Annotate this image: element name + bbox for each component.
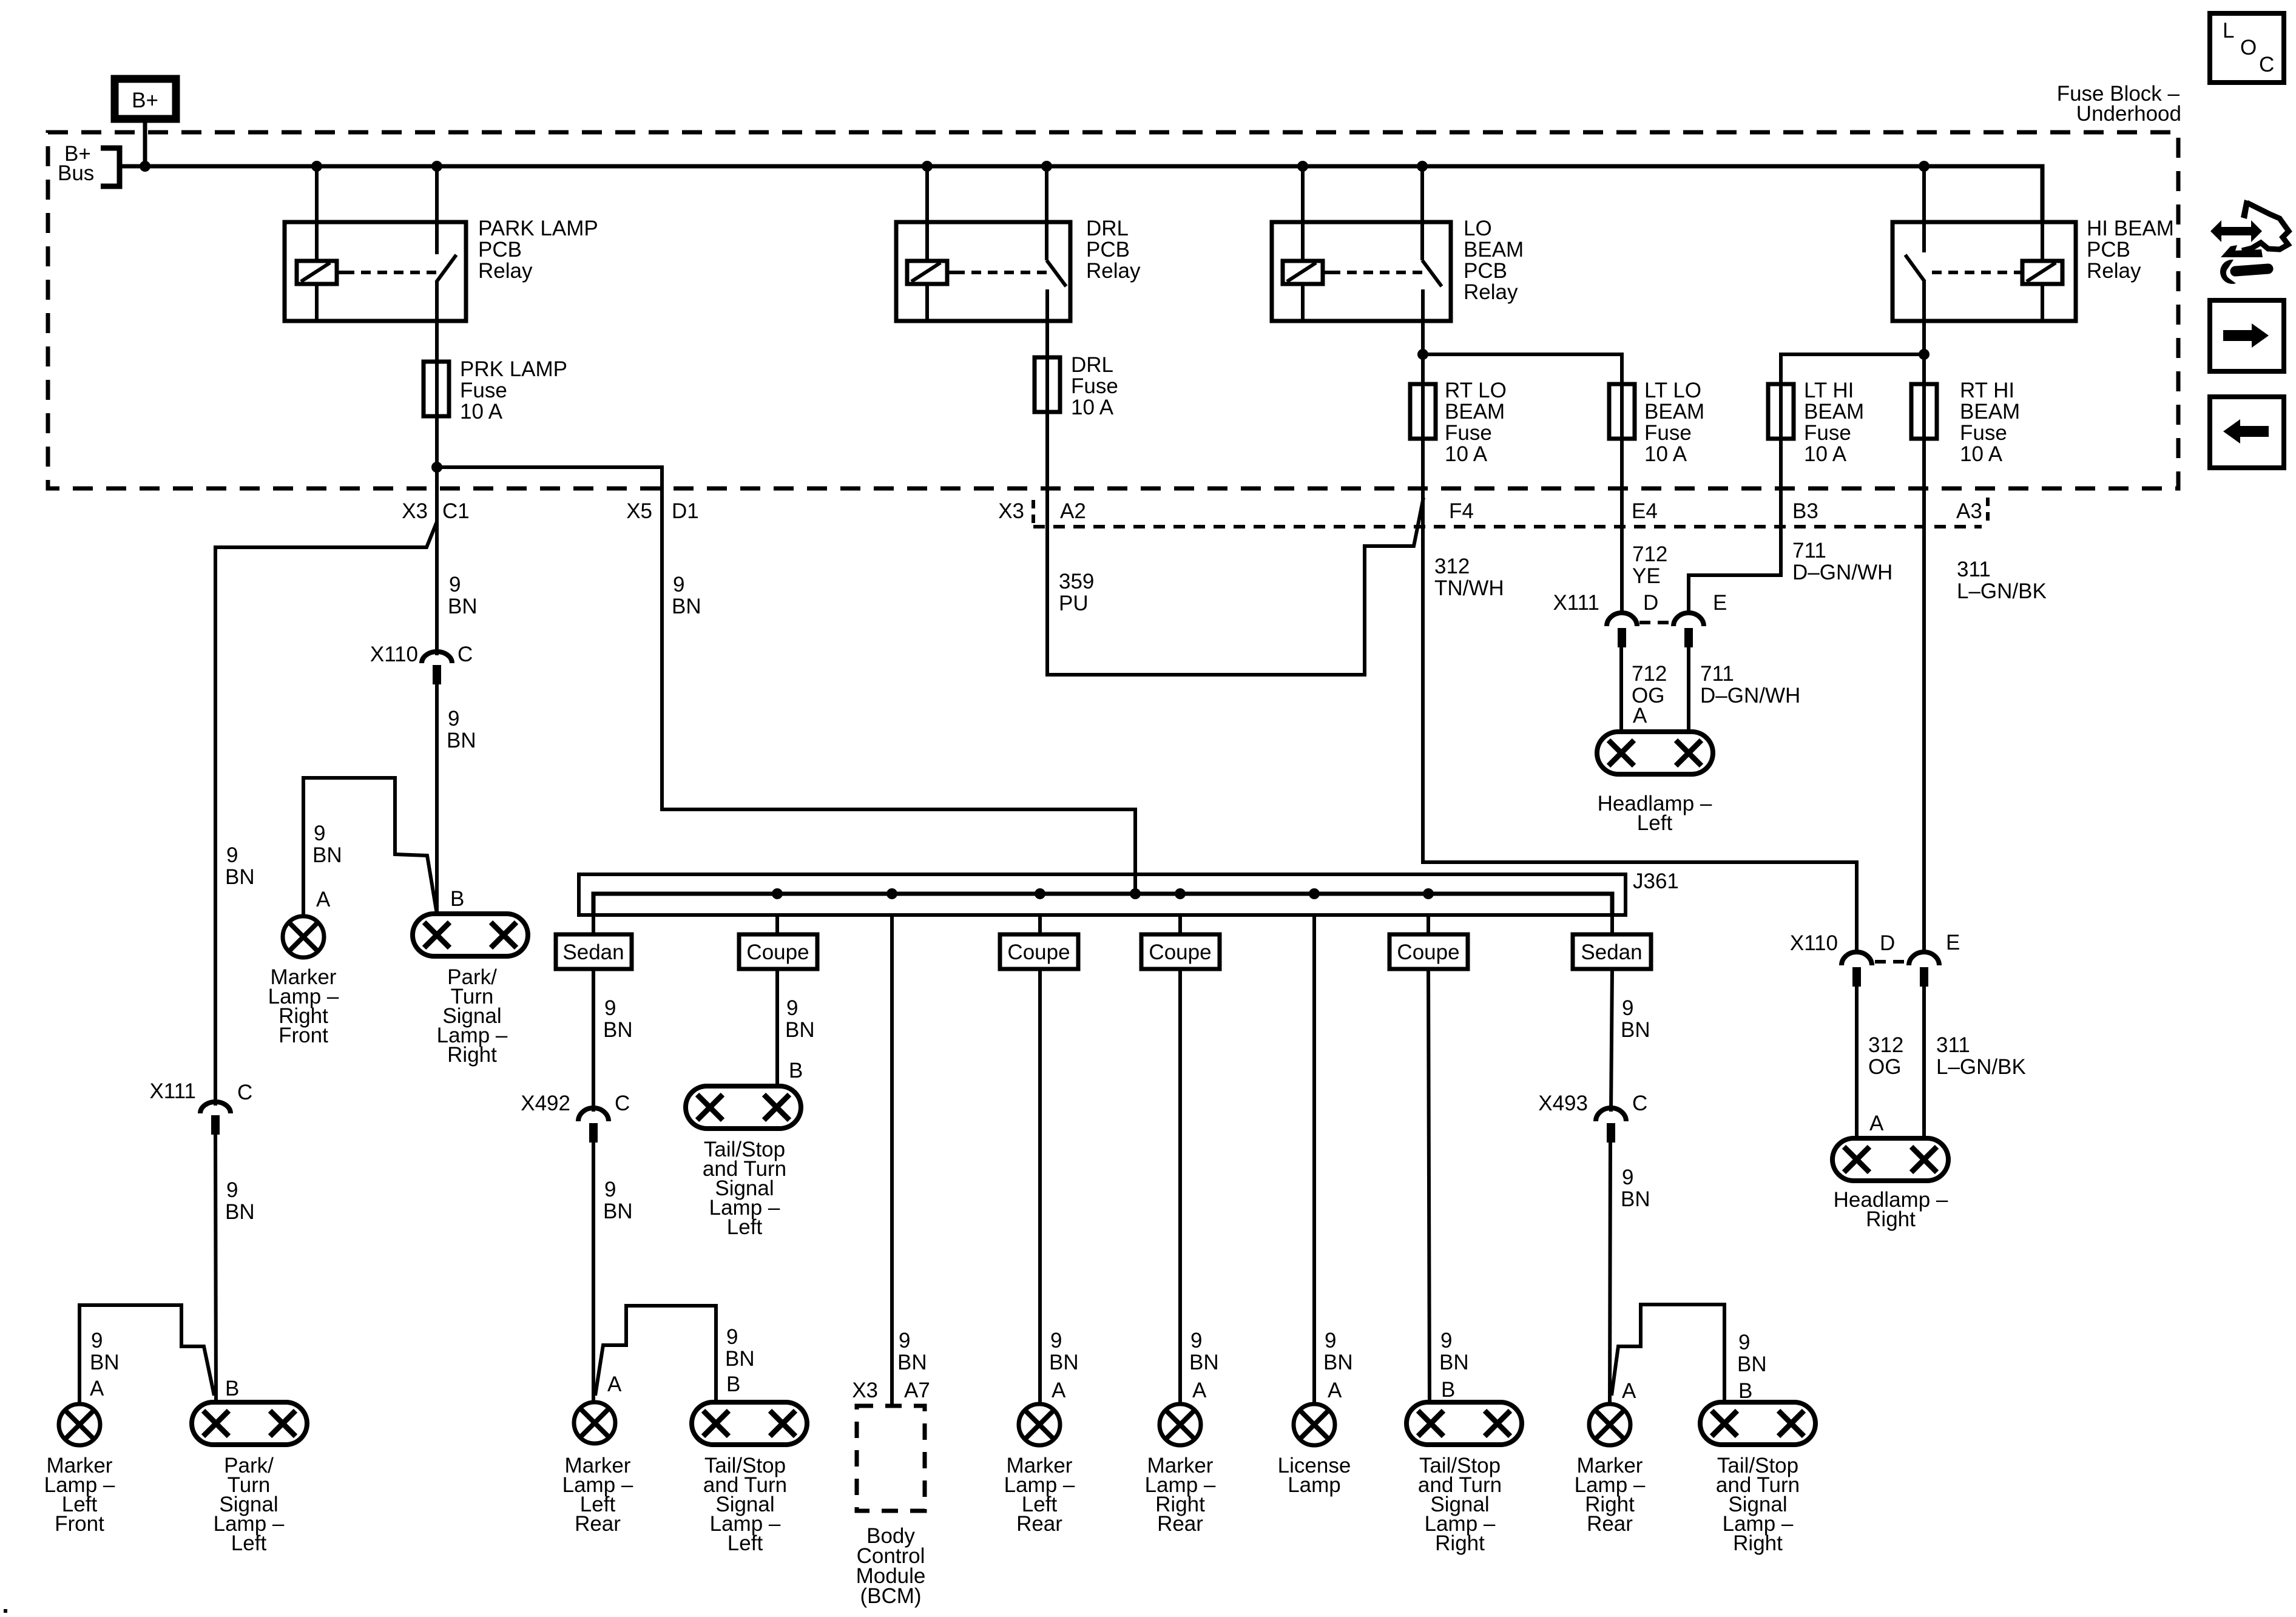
svg-text:BN: BN bbox=[225, 1200, 255, 1224]
svg-text:A: A bbox=[316, 888, 331, 911]
svg-text:X5: X5 bbox=[626, 499, 652, 523]
svg-text:9: 9 bbox=[1325, 1329, 1336, 1352]
svg-text:10 A: 10 A bbox=[1445, 442, 1488, 466]
label 712 OG bbox=[1632, 662, 1667, 707]
svg-text:B: B bbox=[789, 1059, 803, 1082]
svg-text:312: 312 bbox=[1434, 555, 1470, 578]
svg-text:Relay: Relay bbox=[478, 259, 533, 283]
svg-text:Right: Right bbox=[1435, 1531, 1485, 1555]
svg-text:A3: A3 bbox=[1956, 499, 1982, 523]
label Park/Turn Signal Lamp Left bbox=[214, 1454, 285, 1555]
svg-text:A: A bbox=[1869, 1112, 1884, 1135]
relay K2 DRL PCB Relay bbox=[896, 166, 1070, 321]
connector X492 C inline bbox=[521, 1092, 630, 1143]
label 312 OG bbox=[1868, 1033, 1903, 1079]
label 9 BN (below X110) bbox=[447, 707, 476, 752]
svg-text:Rear: Rear bbox=[575, 1512, 621, 1536]
svg-text:Sedan: Sedan bbox=[562, 940, 624, 964]
lamp Marker Lamp Right Rear (sedan) bbox=[1589, 1404, 1630, 1445]
stray period bottom left bbox=[4, 1609, 7, 1613]
label Marker Lamp Right Front bbox=[268, 965, 339, 1047]
label Body Control Module (BCM) bbox=[856, 1524, 926, 1608]
wire J361 tap to Coupe box 3 bbox=[1178, 915, 1182, 934]
wire 711 D-GN/WH to headlamp left bbox=[1687, 647, 1690, 732]
svg-text:712: 712 bbox=[1632, 542, 1667, 566]
svg-text:TN/WH: TN/WH bbox=[1434, 576, 1504, 600]
fuse F5 LT HI BEAM Fuse 10A bbox=[1768, 384, 1794, 439]
svg-text:B: B bbox=[225, 1377, 239, 1400]
svg-text:Fuse: Fuse bbox=[1445, 421, 1492, 445]
svg-text:A: A bbox=[1633, 704, 1647, 727]
svg-text:B+: B+ bbox=[132, 89, 158, 112]
svg-text:9: 9 bbox=[1440, 1329, 1452, 1352]
svg-text:BN: BN bbox=[1439, 1351, 1469, 1374]
label Headlamp Right bbox=[1834, 1188, 1948, 1231]
relay K4 HI BEAM PCB Relay bbox=[1893, 166, 2076, 321]
fuse F4 LT LO BEAM Fuse 10A bbox=[1609, 384, 1635, 439]
svg-text:C: C bbox=[2259, 53, 2274, 76]
label 9 BN (X111 feed wire) bbox=[225, 843, 255, 889]
svg-text:X3: X3 bbox=[402, 499, 428, 523]
lamp Marker Lamp Left Rear (sedan) bbox=[574, 1402, 615, 1443]
label DRL Fuse 10 A bbox=[1071, 353, 1118, 419]
label Park/Turn Signal Lamp Right bbox=[437, 965, 508, 1067]
label 9 BN (license wire) bbox=[1323, 1329, 1353, 1374]
svg-text:PRK LAMP: PRK LAMP bbox=[460, 357, 567, 381]
label 711 D-GN/WH bbox=[1792, 539, 1893, 584]
svg-text:9: 9 bbox=[314, 822, 325, 845]
svg-text:B: B bbox=[1738, 1379, 1752, 1403]
svg-text:9: 9 bbox=[1190, 1329, 1202, 1352]
label 9 BN (BCM wire) bbox=[897, 1329, 927, 1374]
node J361 tap 5 bbox=[1175, 888, 1186, 899]
wire B+ bus bbox=[120, 166, 2042, 222]
svg-text:PCB: PCB bbox=[1464, 259, 1507, 283]
wire 9 BN below X493 bbox=[1610, 1143, 1610, 1404]
connector X110 D (headlamp right) bbox=[1790, 931, 1895, 987]
node bus tap hi switch bbox=[1919, 161, 1930, 172]
svg-text:LO: LO bbox=[1464, 217, 1492, 240]
svg-text:359: 359 bbox=[1059, 570, 1094, 593]
wire drl switch to fuse bbox=[1045, 321, 1049, 357]
svg-text:OG: OG bbox=[1868, 1055, 1901, 1079]
svg-text:Rear: Rear bbox=[1157, 1512, 1203, 1536]
wire 712 YE from LT LO fuse bbox=[1620, 439, 1624, 615]
svg-text:Right: Right bbox=[447, 1043, 497, 1067]
svg-text:RT LO: RT LO bbox=[1445, 379, 1507, 402]
wire 712 OG to headlamp left bbox=[1619, 647, 1623, 732]
connector X110 E (headlamp right) bbox=[1875, 931, 1960, 987]
svg-text:Relay: Relay bbox=[1086, 259, 1141, 283]
svg-text:9: 9 bbox=[1738, 1331, 1750, 1354]
variant box Coupe 1 bbox=[739, 934, 817, 969]
svg-text:BN: BN bbox=[1621, 1187, 1650, 1211]
svg-text:Rear: Rear bbox=[1587, 1512, 1633, 1536]
wire coupe1 to tail/stop left coupe bbox=[775, 969, 779, 1086]
label 9 BN (tail/stop left branch) bbox=[725, 1325, 755, 1371]
wire sedan right to X493 bbox=[1611, 969, 1612, 1112]
svg-text:D–GN/WH: D–GN/WH bbox=[1700, 684, 1800, 707]
svg-text:HI BEAM: HI BEAM bbox=[2087, 217, 2174, 240]
wire park switch to fuse bbox=[435, 321, 439, 362]
label Marker Lamp Right Rear (coupe) bbox=[1145, 1454, 1216, 1536]
label 9 BN (below X492) bbox=[603, 1178, 633, 1223]
svg-text:312: 312 bbox=[1868, 1033, 1903, 1057]
svg-text:Left: Left bbox=[727, 1215, 763, 1239]
lamp License Lamp bbox=[1294, 1404, 1335, 1445]
label Marker Lamp Left Front bbox=[44, 1454, 115, 1536]
svg-text:BN: BN bbox=[603, 1200, 633, 1223]
icon LOC box (top right) bbox=[2210, 13, 2284, 83]
svg-text:Left: Left bbox=[728, 1531, 763, 1555]
svg-text:F4: F4 bbox=[1449, 499, 1474, 523]
connector X111 E (headlamp left) bbox=[1639, 591, 1727, 647]
svg-text:BEAM: BEAM bbox=[1445, 400, 1505, 424]
svg-text:E: E bbox=[1713, 591, 1727, 615]
svg-text:BN: BN bbox=[1189, 1351, 1219, 1374]
fuse F2 DRL Fuse 10A bbox=[1035, 357, 1060, 412]
svg-text:BN: BN bbox=[897, 1351, 927, 1374]
svg-text:9: 9 bbox=[91, 1329, 103, 1352]
svg-text:C: C bbox=[1632, 1092, 1647, 1115]
node J361 tap 3 bbox=[886, 888, 897, 899]
wire sedan left to X492 bbox=[592, 969, 595, 1112]
lamp Headlamp Left (dual filament) bbox=[1597, 732, 1713, 774]
label 312 TN/WH bbox=[1434, 555, 1504, 600]
wire J361 tap license lamp bbox=[1312, 915, 1316, 1404]
svg-text:10 A: 10 A bbox=[1644, 442, 1687, 466]
connector X111 C inline (left front) bbox=[149, 1079, 252, 1135]
wire hi switch to junction bbox=[1922, 321, 1926, 384]
svg-text:A: A bbox=[607, 1372, 622, 1396]
icon left arrow box bbox=[2210, 397, 2284, 468]
svg-text:X492: X492 bbox=[521, 1092, 570, 1115]
svg-text:Coupe: Coupe bbox=[746, 940, 809, 964]
module Body Control Module BCM dashed box bbox=[857, 1406, 925, 1511]
svg-text:10 A: 10 A bbox=[1960, 442, 2003, 466]
node J361 tap 4 bbox=[1035, 888, 1045, 899]
wire 359 PU from DRL fuse bbox=[1047, 412, 1423, 675]
label 9 BN (above X492) bbox=[603, 996, 633, 1042]
icon hand with double arrow bbox=[2210, 200, 2289, 257]
svg-text:X3: X3 bbox=[852, 1379, 878, 1402]
svg-text:BN: BN bbox=[448, 595, 478, 618]
svg-text:Relay: Relay bbox=[2087, 259, 2141, 283]
label 9 BN (marker left front) bbox=[90, 1329, 120, 1374]
svg-text:Right: Right bbox=[1733, 1531, 1783, 1555]
svg-text:PCB: PCB bbox=[478, 238, 522, 262]
svg-text:X3: X3 bbox=[998, 499, 1024, 523]
fuse F6 RT HI BEAM Fuse 10A bbox=[1911, 384, 1937, 439]
lamp Park/Turn Signal Lamp Right (dual filament) bbox=[413, 914, 528, 956]
svg-text:Sedan: Sedan bbox=[1581, 940, 1642, 964]
svg-text:Front: Front bbox=[279, 1024, 328, 1047]
variant box Coupe 3 bbox=[1141, 934, 1220, 969]
label RT LO BEAM Fuse 10 A bbox=[1445, 379, 1507, 466]
variant box Sedan (left) bbox=[556, 934, 632, 969]
label DRL PCB Relay bbox=[1086, 217, 1141, 283]
svg-text:A7: A7 bbox=[904, 1379, 930, 1402]
wire lo switch to junction bbox=[1421, 321, 1425, 384]
svg-text:Coupe: Coupe bbox=[1007, 940, 1070, 964]
svg-text:A: A bbox=[90, 1377, 104, 1400]
node J361 feed bbox=[1130, 888, 1141, 899]
label 9 BN (below X111) bbox=[225, 1178, 255, 1224]
label Marker Lamp Left Rear (sedan) bbox=[562, 1454, 633, 1536]
connector labels X3 A7 at BCM bbox=[852, 1379, 930, 1402]
svg-text:9: 9 bbox=[726, 1325, 738, 1349]
connector X3 dashed face line bbox=[1033, 525, 1982, 528]
svg-text:L: L bbox=[2223, 19, 2234, 42]
label Marker Lamp Right Rear (sedan) bbox=[1575, 1454, 1646, 1536]
svg-text:D–GN/WH: D–GN/WH bbox=[1792, 561, 1893, 584]
svg-text:D: D bbox=[1880, 931, 1895, 955]
label PARK LAMP PCB Relay bbox=[478, 217, 598, 283]
svg-text:311: 311 bbox=[1936, 1033, 1970, 1057]
svg-text:A: A bbox=[1622, 1379, 1636, 1403]
node bus tap lo coil bbox=[1297, 161, 1308, 172]
lamp Headlamp Right (dual filament) bbox=[1832, 1138, 1948, 1181]
wire 9 BN below X110 bbox=[435, 684, 439, 914]
label 9 BN (marker right front) bbox=[312, 822, 342, 867]
svg-text:PCB: PCB bbox=[1086, 238, 1130, 262]
lamp Tail/Stop and Turn Signal Lamp Left (coupe, dual) bbox=[686, 1086, 801, 1129]
svg-text:DRL: DRL bbox=[1071, 353, 1113, 377]
svg-text:9: 9 bbox=[449, 573, 461, 596]
svg-text:LT LO: LT LO bbox=[1644, 379, 1701, 402]
label 359 PU bbox=[1059, 570, 1094, 615]
svg-text:B: B bbox=[1441, 1378, 1455, 1402]
wire 312 OG to headlamp right bbox=[1855, 987, 1859, 1138]
svg-text:Coupe: Coupe bbox=[1397, 940, 1459, 964]
fuse F1 PRK LAMP Fuse 10A bbox=[424, 362, 449, 416]
svg-text:D1: D1 bbox=[672, 499, 699, 523]
node B+ bus junction bbox=[140, 161, 150, 172]
node hi beam feed junction bbox=[1919, 349, 1930, 360]
label 9 BN (coupe tail/stop right) bbox=[1439, 1329, 1469, 1374]
svg-text:PCB: PCB bbox=[2087, 238, 2130, 262]
svg-text:711: 711 bbox=[1792, 539, 1826, 562]
svg-text:E: E bbox=[1946, 931, 1960, 954]
svg-text:BEAM: BEAM bbox=[1644, 400, 1704, 424]
fuse F3 RT LO BEAM Fuse 10A bbox=[1410, 384, 1436, 439]
variant box Coupe 2 bbox=[1000, 934, 1078, 969]
svg-text:X111: X111 bbox=[149, 1079, 196, 1103]
svg-text:YE: YE bbox=[1632, 564, 1661, 588]
icon right arrow box bbox=[2210, 300, 2284, 371]
svg-text:J361: J361 bbox=[1633, 869, 1679, 893]
svg-text:9: 9 bbox=[226, 843, 238, 867]
svg-text:A: A bbox=[1052, 1379, 1066, 1402]
label 9 BN (coupe tail/stop left) bbox=[785, 996, 815, 1042]
label 711 D-GN/WH (lower) bbox=[1700, 662, 1800, 707]
svg-text:RT HI: RT HI bbox=[1960, 379, 2014, 402]
label LT HI BEAM Fuse 10 A bbox=[1804, 379, 1864, 466]
splice pack J361 bbox=[579, 874, 1626, 915]
svg-text:LT HI: LT HI bbox=[1804, 379, 1854, 402]
svg-text:BN: BN bbox=[1737, 1352, 1767, 1376]
svg-text:BN: BN bbox=[725, 1347, 755, 1371]
svg-text:BN: BN bbox=[1323, 1351, 1353, 1374]
label 9 BN (tail/stop right branch) bbox=[1737, 1331, 1767, 1376]
svg-text:B: B bbox=[450, 887, 464, 911]
wire J361 tap to Coupe box 2 bbox=[1038, 915, 1042, 934]
label Tail/Stop and Turn Signal Lamp Left (coupe) bbox=[703, 1138, 786, 1239]
node lo beam feed junction bbox=[1417, 349, 1428, 360]
label RT HI BEAM Fuse 10 A bbox=[1960, 379, 2020, 466]
wire 9 BN from PRK fuse with branch bbox=[215, 416, 442, 1106]
svg-text:E4: E4 bbox=[1632, 499, 1658, 523]
label 9 BN (coupe marker left rear) bbox=[1049, 1329, 1079, 1374]
svg-text:9: 9 bbox=[448, 707, 459, 731]
svg-text:Underhood: Underhood bbox=[2076, 102, 2181, 126]
svg-text:9: 9 bbox=[1622, 996, 1633, 1020]
lamp Tail/Stop and Turn Signal Lamp Right (coupe, dual) bbox=[1406, 1402, 1522, 1445]
svg-text:Bus: Bus bbox=[58, 161, 94, 185]
lamp Tail/Stop and Turn Signal Lamp Left (sedan, dual) bbox=[692, 1402, 807, 1445]
svg-text:9: 9 bbox=[604, 1178, 616, 1201]
svg-text:O: O bbox=[2240, 36, 2257, 59]
svg-text:BN: BN bbox=[603, 1018, 633, 1042]
svg-text:Relay: Relay bbox=[1464, 280, 1518, 304]
wire J361 tap BCM bbox=[890, 915, 894, 1406]
wire 311 L-GN/BK from RT HI fuse bbox=[1922, 439, 1926, 954]
svg-text:X111: X111 bbox=[1553, 591, 1599, 615]
B+ Bus label and bracket bbox=[58, 142, 120, 186]
svg-text:9: 9 bbox=[786, 996, 798, 1020]
svg-text:BN: BN bbox=[447, 729, 476, 752]
wire 9 BN below X111 bbox=[215, 1135, 216, 1402]
svg-text:BN: BN bbox=[785, 1018, 815, 1042]
svg-text:Right: Right bbox=[1866, 1207, 1916, 1231]
svg-text:BN: BN bbox=[90, 1351, 120, 1374]
label Marker Lamp Left Rear (coupe) bbox=[1004, 1454, 1075, 1536]
label LT LO BEAM Fuse 10 A bbox=[1644, 379, 1704, 466]
svg-text:B3: B3 bbox=[1792, 499, 1818, 523]
svg-text:Left: Left bbox=[231, 1531, 267, 1555]
wire coupe4 to tail/stop right bbox=[1428, 969, 1430, 1402]
svg-text:Lamp: Lamp bbox=[1288, 1473, 1341, 1497]
svg-text:9: 9 bbox=[604, 996, 616, 1020]
wire hi feed to LT HI fuse bbox=[1781, 354, 1924, 384]
lamp Marker Lamp Left Front bbox=[59, 1404, 100, 1445]
wire J361 tap to Coupe box 1 bbox=[775, 915, 779, 934]
svg-text:Fuse: Fuse bbox=[1644, 421, 1692, 445]
node bus tap drl switch bbox=[1041, 161, 1052, 172]
svg-text:711: 711 bbox=[1700, 662, 1734, 686]
node bus tap park coil bbox=[311, 161, 322, 172]
svg-text:D: D bbox=[1643, 591, 1658, 615]
svg-text:Fuse: Fuse bbox=[1071, 374, 1118, 398]
label Headlamp Left bbox=[1598, 792, 1712, 835]
svg-text:X493: X493 bbox=[1538, 1092, 1588, 1115]
svg-text:X110: X110 bbox=[370, 643, 418, 666]
connector row labels X3 A2 bbox=[998, 499, 1086, 523]
node bus tap park switch bbox=[431, 161, 442, 172]
svg-text:Front: Front bbox=[55, 1512, 104, 1536]
svg-text:BN: BN bbox=[312, 843, 342, 867]
label Tail/Stop and Turn Signal Lamp Right (coupe) bbox=[1418, 1454, 1502, 1555]
label 9 BN (below X493) bbox=[1621, 1166, 1650, 1211]
svg-text:B: B bbox=[726, 1372, 740, 1396]
svg-text:L–GN/BK: L–GN/BK bbox=[1936, 1055, 2026, 1079]
wire J361 tap to Sedan box right bbox=[1610, 915, 1614, 934]
wire coupe3 to marker right rear bbox=[1178, 969, 1182, 1404]
label 9 BN (C1 wire) bbox=[448, 573, 478, 618]
label 311 L-GN/BK (lower) bbox=[1936, 1033, 2026, 1079]
svg-text:10 A: 10 A bbox=[460, 400, 503, 424]
svg-text:A: A bbox=[1192, 1379, 1207, 1402]
wire 9 BN below X492 bbox=[592, 1143, 595, 1402]
relay K3 LO BEAM PCB Relay bbox=[1272, 166, 1451, 321]
wire branch X493 to tail/stop right sedan bbox=[1612, 1305, 1724, 1402]
wire B+ stem bbox=[143, 119, 147, 166]
svg-text:C: C bbox=[615, 1092, 630, 1115]
wire lo feed to LT LO fuse bbox=[1423, 354, 1622, 384]
label License Lamp bbox=[1278, 1454, 1351, 1497]
node bus tap drl coil bbox=[922, 161, 933, 172]
label Tail/Stop and Turn Signal Lamp Left (sedan) bbox=[703, 1454, 787, 1555]
wire J361 tap to Coupe box 4 bbox=[1427, 915, 1430, 934]
svg-text:9: 9 bbox=[1050, 1329, 1062, 1352]
variant box Sedan (right) bbox=[1573, 934, 1651, 969]
svg-text:BN: BN bbox=[672, 595, 701, 618]
svg-text:Fuse: Fuse bbox=[460, 379, 507, 402]
wire J361 tap to Sedan box left bbox=[592, 915, 595, 934]
label 9 BN (coupe marker right rear) bbox=[1189, 1329, 1219, 1374]
connector X111 D (headlamp left) bbox=[1553, 591, 1658, 647]
label 9 BN (D1 wire) bbox=[672, 573, 701, 618]
connector X3 left dashed tick bbox=[1032, 500, 1035, 525]
svg-text:BN: BN bbox=[225, 865, 255, 889]
node J361 tap 7 bbox=[1423, 888, 1434, 899]
svg-text:Rear: Rear bbox=[1016, 1512, 1062, 1536]
icon wrench bbox=[2220, 260, 2268, 284]
lamp Marker Lamp Left Rear (coupe) bbox=[1019, 1404, 1060, 1445]
label 9 BN (above X493) bbox=[1621, 996, 1650, 1042]
wire 711 D-GN/WH from LT HI fuse bbox=[1689, 439, 1781, 615]
svg-text:BN: BN bbox=[1049, 1351, 1079, 1374]
svg-text:9: 9 bbox=[226, 1178, 238, 1202]
wire branch X492 to tail/stop left bbox=[595, 1306, 716, 1402]
label 311 L-GN/BK bbox=[1957, 558, 2047, 603]
lamp Marker Lamp Right Rear (coupe) bbox=[1160, 1404, 1201, 1445]
wire branch to X5 D1 bbox=[437, 467, 1135, 894]
wire coupe2 to marker left rear bbox=[1038, 969, 1042, 1404]
svg-text:C1: C1 bbox=[442, 499, 470, 523]
connector X493 C inline bbox=[1538, 1092, 1647, 1143]
svg-text:Coupe: Coupe bbox=[1149, 940, 1211, 964]
svg-text:9: 9 bbox=[673, 573, 684, 596]
lamp Park/Turn Signal Lamp Left (dual filament) bbox=[192, 1402, 307, 1445]
node J361 tap 6 bbox=[1309, 888, 1320, 899]
variant box Coupe 4 bbox=[1389, 934, 1468, 969]
svg-text:712: 712 bbox=[1632, 662, 1667, 686]
connector X110 C inline bbox=[370, 643, 473, 684]
svg-text:BEAM: BEAM bbox=[1464, 238, 1524, 262]
svg-text:PU: PU bbox=[1059, 592, 1089, 615]
svg-text:(BCM): (BCM) bbox=[860, 1584, 921, 1608]
svg-text:A: A bbox=[1328, 1379, 1342, 1402]
svg-text:BEAM: BEAM bbox=[1960, 400, 2020, 424]
svg-text:10 A: 10 A bbox=[1804, 442, 1847, 466]
connector row labels X3 C1 bbox=[402, 499, 470, 523]
label 712 YE bbox=[1632, 542, 1667, 588]
node bus tap lo switch bbox=[1417, 161, 1428, 172]
label Tail/Stop and Turn Signal Lamp Right (sedan) bbox=[1716, 1454, 1800, 1555]
svg-text:311: 311 bbox=[1957, 558, 1991, 581]
svg-text:Left: Left bbox=[1637, 811, 1673, 835]
